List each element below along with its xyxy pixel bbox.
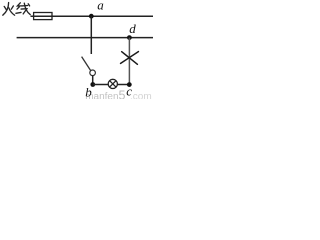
node d — [127, 35, 132, 40]
wire: vertical from a — [90, 16, 92, 54]
wire: contact to b — [92, 76, 94, 85]
wire: vertical from d to c — [128, 38, 130, 85]
switch contact circle — [90, 70, 96, 76]
node c — [127, 82, 132, 87]
fuse — [34, 13, 52, 20]
线 — [17, 3, 20, 9]
wire: second (neutral) wire — [17, 37, 153, 39]
label 火线 (live wire text, drawn as paths) — [3, 3, 30, 16]
火 — [3, 3, 9, 16]
svg-text:b: b — [85, 84, 92, 99]
node a — [89, 14, 94, 19]
wire: top live wire — [31, 15, 154, 17]
lamp L1 — [108, 79, 117, 88]
svg-text:c: c — [126, 84, 132, 99]
switch blade — [82, 57, 91, 71]
svg-text:d: d — [129, 21, 136, 36]
svg-text:a: a — [97, 0, 104, 12]
break mark X on wire d-c — [121, 52, 139, 65]
svg-text:manfen5.com: manfen5.com — [85, 89, 151, 100]
wire: bottom b to c — [93, 84, 130, 86]
node b — [90, 82, 95, 87]
